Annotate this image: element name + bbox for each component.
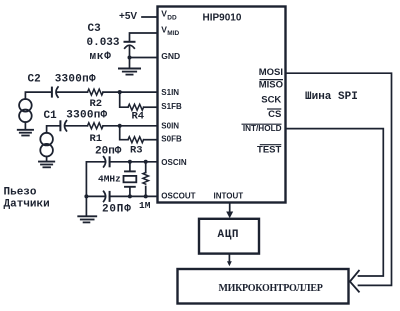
svg-text:GND: GND	[161, 51, 180, 61]
svg-text:MOSI: MOSI	[259, 67, 283, 78]
svg-text:3300пФ: 3300пФ	[66, 110, 107, 122]
svg-text:CS: CS	[268, 109, 281, 120]
svg-text:S0IN: S0IN	[161, 121, 179, 130]
svg-text:OSCIN: OSCIN	[161, 158, 187, 167]
svg-text:S1FB: S1FB	[161, 102, 182, 111]
svg-text:АЦП: АЦП	[218, 229, 240, 241]
svg-text:TEST: TEST	[257, 144, 281, 155]
svg-text:R1: R1	[90, 133, 103, 145]
svg-text:INT/HOLD: INT/HOLD	[243, 124, 282, 133]
svg-text:20пФ: 20пФ	[95, 146, 122, 158]
svg-text:S0FB: S0FB	[161, 135, 182, 144]
svg-text:R4: R4	[132, 111, 145, 123]
svg-text:20ПФ: 20ПФ	[102, 204, 132, 216]
svg-text:R3: R3	[130, 144, 143, 156]
svg-text:4MHz: 4MHz	[98, 174, 121, 185]
svg-text:C1: C1	[44, 110, 58, 122]
svg-text:MID: MID	[167, 30, 179, 37]
svg-text:Пьезо: Пьезо	[4, 187, 37, 199]
svg-text:S1IN: S1IN	[161, 88, 179, 97]
svg-text:HIP9010: HIP9010	[203, 13, 242, 24]
svg-text:R2: R2	[90, 98, 103, 110]
svg-text:SCK: SCK	[261, 95, 281, 106]
svg-text:+5V: +5V	[119, 11, 137, 22]
svg-text:OSCOUT: OSCOUT	[161, 191, 195, 200]
svg-text:МИКРОКОНТРОЛЛЕР: МИКРОКОНТРОЛЛЕР	[218, 283, 322, 294]
svg-text:DD: DD	[167, 14, 177, 21]
svg-text:мкФ: мкФ	[90, 51, 112, 63]
svg-text:Шина SPI: Шина SPI	[305, 91, 358, 103]
svg-text:0.033: 0.033	[87, 37, 120, 49]
svg-text:3300пФ: 3300пФ	[55, 74, 96, 86]
svg-text:1M: 1M	[139, 200, 151, 211]
svg-text:C3: C3	[88, 23, 102, 35]
svg-text:C2: C2	[28, 74, 41, 86]
svg-text:Датчики: Датчики	[4, 199, 50, 211]
svg-text:MISO: MISO	[259, 79, 283, 90]
svg-text:INTOUT: INTOUT	[214, 191, 244, 200]
